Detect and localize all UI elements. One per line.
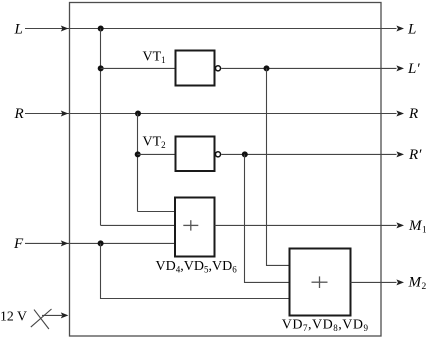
transistor VT1 [176, 51, 215, 86]
wire to VD4-6 middle input [101, 224, 176, 226]
plus symbol VD7-9 [312, 276, 328, 288]
label VD4,VD5,VD6 [156, 259, 238, 275]
node VT1 output junction [264, 65, 270, 71]
node R junction [135, 111, 141, 117]
node VT2 input branch [135, 151, 141, 157]
arrow L into box [61, 26, 69, 32]
wire R input line [25, 113, 397, 115]
label R' output [408, 147, 422, 163]
svg-text:1: 1 [422, 226, 426, 236]
wire VT2 output (R') [221, 153, 396, 155]
svg-text:12 V: 12 V [0, 308, 27, 323]
svg-text:R′: R′ [408, 147, 422, 163]
wire L input line [25, 28, 397, 30]
label L' output [407, 61, 420, 77]
label VT1 [143, 49, 166, 65]
wire L vertical branch [100, 29, 102, 226]
wire VT1 output (L') [221, 67, 396, 69]
wire M1 output [215, 224, 397, 226]
arrow F into box [61, 240, 69, 246]
svg-text:L: L [407, 21, 416, 37]
arrow R output [396, 111, 404, 117]
diode OR gate VD4,VD5,VD6 [175, 198, 215, 257]
VT1 inverter bubble [215, 66, 220, 71]
svg-text:M: M [408, 218, 423, 234]
diode OR gate VD7,VD8,VD9 [290, 249, 351, 316]
arrow R into box [61, 111, 69, 117]
VT2 inverter bubble [215, 152, 220, 157]
label L input [14, 21, 23, 37]
label M1 output [408, 218, 426, 236]
svg-text:L′: L′ [407, 61, 420, 77]
svg-text:VD4,VD5,VD6: VD4,VD5,VD6 [156, 259, 238, 275]
arrow R' output [396, 151, 404, 157]
outer box (control unit boundary) [70, 3, 382, 337]
label R input [14, 106, 24, 122]
svg-text:M: M [408, 275, 423, 291]
svg-text:2: 2 [422, 282, 426, 292]
wire M2 output [351, 281, 397, 283]
svg-text:R: R [408, 106, 418, 122]
wire to VT2 input [138, 153, 176, 155]
arrow L output [396, 26, 404, 32]
node VT2 output junction [242, 151, 248, 157]
label VT2 [143, 134, 166, 150]
svg-text:VD7,VD8,VD9: VD7,VD8,VD9 [282, 318, 369, 334]
label L output [407, 21, 416, 37]
wire VT2 output vertical branch [245, 154, 290, 282]
wire R vertical branch [137, 114, 139, 212]
wire to VT1 input [101, 67, 176, 69]
wire VT1 output vertical branch [267, 68, 290, 265]
wire to VD4-6 top input [138, 211, 176, 213]
plus symbol VD4-6 [183, 220, 198, 230]
svg-text:R: R [14, 106, 24, 122]
switch X symbol on 12V line [31, 309, 52, 329]
wire F vertical branch [101, 243, 290, 298]
wire 12V input [42, 314, 62, 316]
arrow L' output [396, 65, 404, 71]
label VD7,VD8,VD9 [282, 318, 369, 334]
label 12 V [0, 308, 27, 323]
node VT1 input branch [98, 65, 104, 71]
transistor VT2 [176, 137, 215, 172]
arrow M2 output [396, 279, 404, 285]
arrow 12V into box [61, 312, 69, 318]
svg-text:F: F [13, 236, 24, 252]
label R output [408, 106, 418, 122]
node F junction [98, 240, 104, 246]
label F input [13, 236, 24, 252]
label M2 output [408, 275, 426, 293]
node L junction [98, 26, 104, 32]
arrow M1 output [396, 222, 404, 228]
wire F input line [25, 242, 175, 244]
svg-text:L: L [14, 21, 23, 37]
